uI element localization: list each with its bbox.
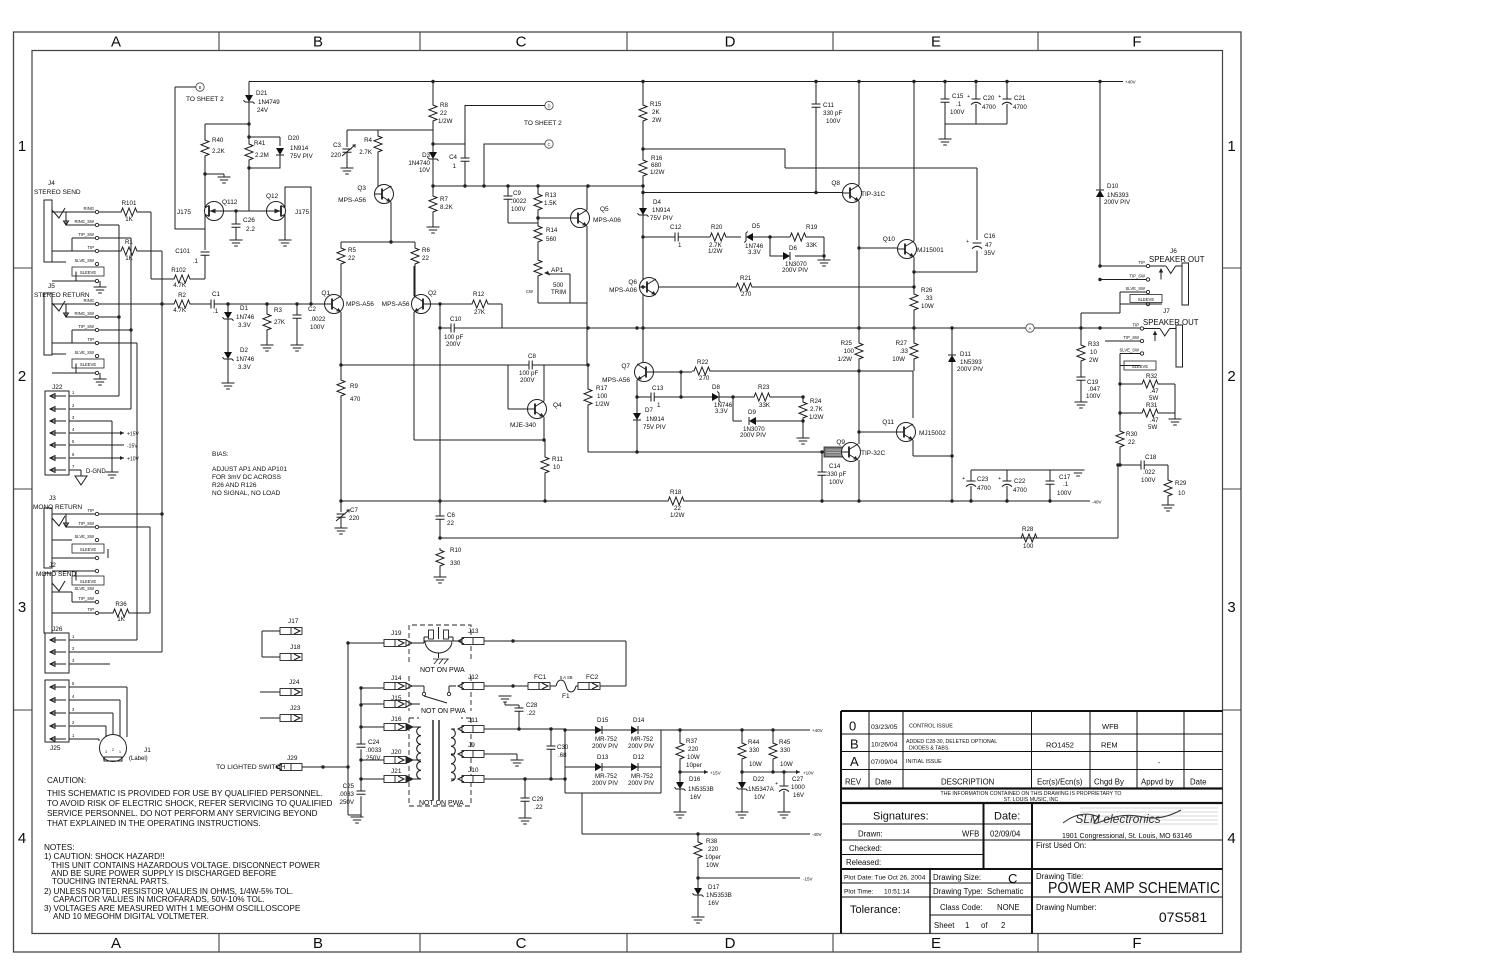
diode D15 [565,726,631,734]
logo hatch lines [1080,808,1218,824]
junction J7 sleeve R32 [1118,382,1121,385]
connector J18 [262,654,302,661]
junction bus186 x433 [431,184,434,187]
svg-text:J2: J2 [49,562,56,569]
svg-text:D6: D6 [789,245,797,252]
jack J7 sleeve box [1124,361,1156,370]
label R12 [473,291,486,316]
label D17 [706,884,732,907]
label R3 [274,307,286,326]
svg-text:1K: 1K [125,216,133,223]
svg-text:R24: R24 [810,398,822,405]
connector J23 [260,715,302,722]
svg-text:-15V: -15V [803,877,813,882]
junction D8-D9 [731,395,734,398]
svg-text:ST. LOUIS MUSIC, INC: ST. LOUIS MUSIC, INC [1004,797,1059,803]
label C18 [1141,454,1157,484]
svg-text:D3: D3 [422,152,430,159]
transistor Q9 [842,443,861,462]
svg-text:2K: 2K [652,109,660,116]
wire J7 sleeve down [1119,366,1121,430]
label R13 [544,192,558,207]
junction +40V psu x680 [678,728,681,731]
svg-text:RING: RING [84,298,94,303]
svg-text:C21: C21 [1014,95,1026,102]
svg-text:C18: C18 [1145,454,1157,461]
label R17 [595,385,610,408]
wire Q6 emitter to R21 [659,286,735,288]
svg-text:SLEEVE: SLEEVE [80,579,97,584]
svg-text:680: 680 [651,162,662,169]
label C101 [175,248,198,265]
ground R24 [797,438,810,444]
label C3 [331,142,342,159]
junction R30-C18 [1118,463,1121,466]
svg-text:J4: J4 [48,180,55,187]
zener D22 [737,772,748,812]
note NOTES block [44,843,320,921]
junction bus186 x508 [506,184,509,187]
svg-text:+: + [998,94,1001,100]
jack J2 sleeve box [72,569,104,585]
svg-text:R40: R40 [212,137,224,144]
label J5 [34,283,90,299]
svg-text:Q1: Q1 [321,290,330,297]
svg-text:R3: R3 [274,307,282,314]
svg-text:1N746: 1N746 [236,356,255,363]
svg-text:D9: D9 [748,409,756,416]
label D14 [628,717,655,750]
resistor R33 [1077,313,1085,377]
junction top rail x816 [814,80,817,83]
svg-text:330: 330 [780,747,791,754]
transistor Q7 [635,363,654,382]
resistor R11 [541,440,549,501]
svg-text:3.3V: 3.3V [238,322,252,329]
svg-text:Q6: Q6 [628,279,637,286]
svg-text:270: 270 [741,291,752,298]
label R33 [1088,341,1100,364]
labels J7 pins [1120,323,1140,353]
label AP1 [526,267,566,296]
svg-text:J26: J26 [52,626,63,633]
title block drawing size [933,871,1017,886]
svg-text:J3: J3 [49,495,56,502]
diode D12 [631,763,661,771]
junction C6-R10 [438,536,441,539]
resistor R6 [411,242,419,296]
junction output rail x637 [635,326,638,329]
svg-text:C101: C101 [175,248,190,255]
svg-text:R27: R27 [896,340,908,347]
svg-text:First Used On:: First Used On: [1036,841,1086,850]
wire -40V rail [341,500,1090,502]
svg-text:D5: D5 [752,223,760,230]
resistor R25 [855,341,863,442]
svg-text:-15V: -15V [127,444,138,450]
svg-text:07/09/04: 07/09/04 [871,759,898,766]
svg-text:J19: J19 [391,630,402,637]
heatsink box Q9 [824,447,846,457]
svg-text:R20: R20 [711,224,723,231]
svg-text:D15: D15 [597,717,609,724]
svg-text:D11: D11 [960,351,971,358]
svg-text:D: D [547,103,550,108]
label C2 [308,306,326,331]
svg-text:200V PIV: 200V PIV [1104,199,1131,206]
svg-text:RING_SW: RING_SW [74,311,94,316]
svg-text:1N4749: 1N4749 [258,99,280,106]
svg-text:C6: C6 [447,512,455,519]
svg-text:D20: D20 [288,135,300,142]
svg-text:TOUCHING INTERNAL PARTS.: TOUCHING INTERNAL PARTS. [52,877,169,886]
svg-text:330 pF: 330 pF [827,471,846,478]
jack J4 sleeve box [72,267,104,283]
svg-text:A: A [111,935,121,952]
svg-text:Checked:: Checked: [849,844,882,853]
junction -40V rail x822 [820,499,823,502]
svg-text:D7: D7 [645,407,653,414]
resistor R38 [694,834,702,888]
junction bus192 x643 [641,191,644,194]
transistor Q6 [640,278,659,297]
transistor Q10 [898,240,917,259]
junction J6 tip [1098,264,1101,267]
svg-text:AP1: AP1 [551,267,564,274]
ground D16 [674,812,687,818]
capacitor C15 [941,82,950,125]
label R19 [806,224,818,249]
svg-text:D14: D14 [633,717,645,724]
label Q5 [593,206,621,224]
svg-text:FC2: FC2 [586,674,599,681]
diode D14 [631,726,810,734]
label R14 [546,227,558,243]
junction -40V rail x859 [857,499,860,502]
connector J12 [458,683,528,690]
svg-text:Tolerance:: Tolerance: [850,904,901,916]
label C29 [532,796,544,811]
svg-text:MR-752: MR-752 [631,773,654,780]
svg-text:C19: C19 [1087,379,1099,386]
capacitor C23 [962,470,976,501]
resistor R3 [263,304,271,345]
svg-text:R8: R8 [440,102,448,109]
label R26 [921,287,934,310]
svg-text:J23: J23 [290,705,301,712]
capacitor C17 [1046,470,1055,501]
ground C24/C25 [351,817,364,823]
label D12 [628,754,655,787]
svg-text:-40V: -40V [1092,500,1102,505]
svg-text:1K: 1K [117,616,125,623]
svg-text:100V: 100V [310,324,325,331]
ground C26 [230,240,243,246]
label R10 [450,547,462,567]
wire J22 pin4 +15V [69,431,139,438]
junction heatsink rail x637 [635,450,638,453]
ground D17 [692,917,705,923]
svg-text:D: D [725,34,736,51]
capacitor C25 [357,791,366,794]
junction -40V rail x1007 [1005,499,1008,502]
connector J26 pins [50,634,75,667]
label R32 [1146,373,1159,402]
wire J26 pin2 [69,651,162,653]
svg-text:J21: J21 [391,768,402,775]
connector J10 [458,776,565,783]
connector J13 [454,638,626,687]
svg-text:.47: .47 [1150,417,1159,424]
label D15 [592,717,619,750]
junction bus186 x588 [586,184,589,187]
svg-text:J1: J1 [144,747,151,754]
ground C19 [1075,402,1088,408]
junction Q1 base x311 [309,302,312,305]
svg-text:1N5353B: 1N5353B [706,892,732,899]
svg-text:10V: 10V [754,794,766,801]
svg-text:C15: C15 [952,93,964,100]
label R20 [708,224,723,255]
note BIAS text [212,451,287,497]
title block revA row [850,754,1161,769]
svg-text:200V PIV: 200V PIV [957,366,984,373]
svg-text:10/26/04: 10/26/04 [871,742,898,749]
label C19 [1086,379,1101,400]
svg-text:R14: R14 [546,227,558,234]
capacitor C20 [967,82,981,125]
svg-text:J14: J14 [391,675,402,682]
junction R41 top [247,135,250,138]
jack J3 contacts [95,512,98,541]
fuse connector FC2 [578,674,626,690]
dashed box switch [409,676,471,711]
svg-text:100 pF: 100 pF [519,370,538,377]
svg-text:R16: R16 [651,155,663,162]
svg-text:250V: 250V [366,755,381,762]
transistor Q4 [528,400,547,419]
svg-text:C29: C29 [532,796,544,803]
label R2 [173,292,187,314]
svg-text:B: B [199,85,202,90]
wire C-node [484,144,545,186]
capacitor C12 [643,233,708,242]
svg-text:MPS-A56: MPS-A56 [602,377,630,384]
label C21 [1013,95,1027,111]
svg-text:C27: C27 [792,776,804,783]
transformer core [433,720,439,800]
svg-text:2.2M: 2.2M [255,152,269,159]
bridge frame [565,730,661,793]
junction R13 bottom [536,216,539,219]
svg-text:200V PIV: 200V PIV [628,743,655,750]
svg-text:WFB: WFB [962,830,979,839]
svg-text:CAPACITOR VALUES IN MICROFARAD: CAPACITOR VALUES IN MICROFARADS, 50V-10%… [53,895,265,904]
svg-text:TO AVOID RISK OF ELECTRIC SHOC: TO AVOID RISK OF ELECTRIC SHOCK, REFER S… [47,799,332,808]
svg-text:5 A SB: 5 A SB [560,675,573,680]
svg-text:Drawing Type:: Drawing Type: [933,887,983,896]
svg-text:TIP_SW: TIP_SW [1123,335,1139,340]
wire C16 loop [914,168,977,272]
svg-text:MPS-A56: MPS-A56 [338,197,366,204]
svg-text:1/2W: 1/2W [708,248,723,255]
resistor R101 on RING line [99,208,151,216]
node C to-sheet-2 [545,140,553,148]
junction C27 +10V [782,770,785,773]
svg-text:1: 1 [1227,138,1235,155]
junction -40V rail x971 [969,499,972,502]
svg-text:TIP: TIP [1132,323,1139,328]
svg-text:J10: J10 [468,767,479,774]
svg-text:330: 330 [749,747,760,754]
wire J22 pin3 [69,421,112,472]
wire bus y186 [433,185,643,187]
capacitor C10 [440,304,502,333]
connector J24 [260,689,302,696]
label R24 [809,398,824,421]
wire Q12 drain loop [285,187,311,304]
wire J5 tipsw to bus [99,329,131,331]
label D7 [643,407,667,431]
title block class code [940,903,1020,912]
junction bus192 x816 [814,191,817,194]
svg-text:E: E [931,935,941,952]
svg-text:4700: 4700 [1013,104,1027,111]
connector J19 [348,640,412,647]
svg-text:J22: J22 [52,384,63,391]
label R9 [350,383,361,403]
resistor R18 in rail [666,497,686,505]
svg-text:C26: C26 [243,217,255,224]
label Q1 [321,290,374,308]
jack J7 body [1176,325,1183,367]
svg-text:MJ15001: MJ15001 [917,247,944,254]
diode D20 [249,148,284,168]
ground Q12 [279,240,292,246]
svg-text:C22: C22 [1014,478,1026,485]
svg-text:D-GND: D-GND [86,469,106,475]
transistor Q12 [267,202,286,221]
ground R3 [261,345,274,351]
svg-text:1: 1 [678,242,682,249]
diode D10 [1096,82,1104,267]
capacitor C14 [818,452,827,501]
svg-text:Q7: Q7 [621,363,630,370]
svg-text:Q4: Q4 [553,402,562,409]
logo signature script [1063,810,1181,826]
wire bus x137 [136,343,138,640]
svg-text:R1: R1 [125,239,133,246]
resistor R4 [374,130,382,194]
ground R40 [218,177,231,183]
diode D6 [783,252,790,260]
svg-text:8.2K: 8.2K [440,204,454,211]
label Q9 [836,439,885,457]
junction D11-Q11 [950,454,953,457]
svg-text:.33: .33 [924,295,933,302]
svg-text:C10: C10 [450,316,462,323]
junction C28-J11 [517,727,520,730]
capacitor C4 [461,144,470,186]
wire rail y538 [440,465,1118,538]
transistor Q1 [325,295,344,314]
svg-text:5W: 5W [1149,395,1158,402]
svg-text:R13: R13 [545,192,557,199]
wire J7 slve_sw [1120,353,1140,355]
capacitor C28 [505,702,524,729]
svg-text:SLVE_SW: SLVE_SW [1126,286,1146,291]
svg-text:33K: 33K [806,242,818,249]
svg-text:330 pF: 330 pF [823,110,842,117]
capacitor C19 [1077,377,1086,402]
connector J17 [262,628,302,658]
svg-text:CAUTION:: CAUTION: [47,776,86,785]
svg-text:200V PIV: 200V PIV [740,432,767,439]
svg-text:J13: J13 [468,628,479,635]
svg-text:B: B [313,34,323,51]
svg-text:470: 470 [350,396,361,403]
svg-text:D1: D1 [240,305,248,312]
svg-text:.1: .1 [213,308,219,315]
svg-text:1/2W: 1/2W [650,169,665,176]
resistor R12 and wire [440,300,502,328]
wire AP1 bottom bus [538,302,587,304]
wire R101-R102 link [151,212,172,279]
svg-text:REV: REV [845,778,862,787]
label R40 [212,137,226,155]
svg-text:R18: R18 [670,489,682,496]
wire Q11 emitter to D11 col [913,440,952,456]
resistor R21 [734,283,914,291]
svg-text:500: 500 [553,282,564,289]
label R102 [171,267,187,289]
label C13 [652,385,664,409]
svg-text:R29: R29 [1175,480,1187,487]
svg-text:FOR 3mV DC ACROSS: FOR 3mV DC ACROSS [212,474,282,481]
label C1 [212,291,220,315]
capacitor C24 [357,744,366,747]
svg-text:SLEEVE: SLEEVE [1132,364,1149,369]
junction bus186 x643 [641,184,644,187]
label R37 [686,738,702,769]
svg-text:75V PIV: 75V PIV [650,215,674,222]
jack J5 body [44,293,52,355]
svg-text:D: D [725,935,736,952]
svg-text:.0033: .0033 [339,791,355,798]
svg-text:.0033: .0033 [366,747,382,754]
junction C8 rail left [339,363,342,366]
svg-text:POWER AMP SCHEMATIC: POWER AMP SCHEMATIC [1048,880,1220,897]
svg-text:Class Code:: Class Code: [940,903,982,912]
wire Q4 base loop [508,365,527,409]
title block signatures labels [873,811,1020,823]
junction x361 y727 [359,725,362,728]
svg-text:Q2: Q2 [428,290,437,297]
transistor Q3 [375,185,394,204]
wire J4 tipsw stub [99,237,131,239]
svg-text:C25: C25 [343,783,355,790]
wire Q7 emitter to R22 [654,370,693,373]
wire R41-D20 top [249,137,280,146]
svg-text:Appvd by: Appvd by [1141,778,1174,787]
svg-text:Drawing Number:: Drawing Number: [1036,903,1097,912]
svg-text:SLVE_SW: SLVE_SW [75,350,95,355]
svg-text:+: + [962,476,965,482]
junction Q7-C13 [635,395,638,398]
label R6 [422,247,430,262]
svg-text:+10V: +10V [127,457,139,463]
resistor R31 [1120,409,1175,419]
